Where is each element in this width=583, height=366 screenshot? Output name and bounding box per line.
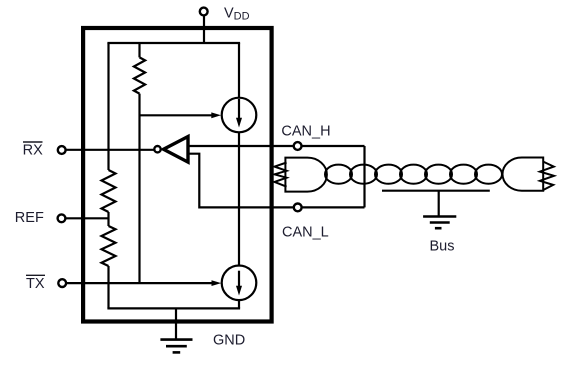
svg-text:RX: RX (23, 142, 43, 158)
current source I2 (222, 266, 257, 301)
svg-text:TX: TX (26, 276, 45, 292)
wire REF line (66, 217, 109, 219)
arrowhead TX (212, 280, 222, 286)
cable end left horn (275, 158, 327, 192)
twisted pair (325, 165, 502, 184)
svg-text:VDD: VDD (224, 6, 250, 23)
wire bus ground bar (382, 191, 490, 217)
terminal TX (58, 279, 66, 287)
wire left divider vertical (VDD rail down to GND rail) (107, 43, 109, 170)
svg-text:CAN_L: CAN_L (282, 225, 329, 241)
wire bus stub vertical (363, 146, 365, 207)
ground Bus (423, 217, 456, 229)
wire control arrow to upper current source (140, 114, 214, 116)
wire CAN_H line (188, 145, 365, 147)
terminal REF (58, 214, 66, 222)
wire GND rail (107, 307, 240, 309)
wire current source column (238, 43, 240, 121)
wire TX line (67, 282, 215, 284)
wire receiver lower input to CAN_L (188, 154, 365, 208)
wire TX control vertical top (138, 43, 140, 57)
terminal RX (58, 146, 66, 154)
resistor divider lower (102, 226, 116, 266)
arrowhead control upper (211, 112, 221, 118)
receiver inverter U1 (154, 137, 188, 163)
wire divider middle (REF node) (107, 212, 109, 226)
wire TX control vertical (138, 94, 140, 284)
current source I1 (222, 98, 257, 133)
resistor bias (134, 57, 145, 93)
wire GND stem (175, 308, 177, 339)
label TX (26, 275, 45, 292)
IC outline (83, 28, 272, 322)
wire divider bottom (107, 266, 109, 308)
wire VDD stem (203, 16, 205, 43)
resistor divider upper (102, 170, 116, 212)
svg-text:Bus: Bus (430, 239, 455, 255)
wire top VDD rail (107, 42, 240, 44)
ground GND (160, 340, 192, 353)
svg-text:CAN_H: CAN_H (281, 123, 330, 139)
svg-text:REF: REF (15, 210, 44, 226)
terminal VDD (200, 8, 208, 16)
terminal CAN_L (294, 204, 302, 212)
svg-text:GND: GND (213, 332, 245, 348)
wire RX line (66, 149, 155, 151)
label RX (23, 142, 43, 158)
terminal CAN_H (294, 142, 302, 150)
cable end right horn (503, 158, 555, 191)
